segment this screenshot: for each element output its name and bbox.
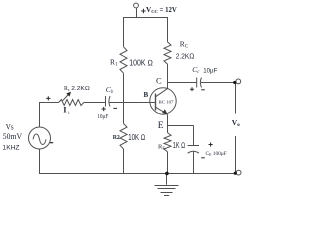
svg-text:2.2KΩ: 2.2KΩ — [71, 86, 90, 92]
svg-text:E: E — [158, 121, 164, 131]
svg-text:10μF: 10μF — [203, 67, 217, 74]
svg-text:1K Ω: 1K Ω — [173, 141, 185, 150]
svg-text:VCC = 12V: VCC = 12V — [146, 6, 177, 14]
svg-text:C: C — [156, 75, 162, 85]
svg-text:10K Ω: 10K Ω — [128, 133, 145, 142]
svg-text:CE 100μF: CE 100μF — [206, 151, 227, 157]
svg-text:1KHZ: 1KHZ — [3, 145, 20, 151]
svg-text:100K Ω: 100K Ω — [129, 58, 153, 67]
svg-text:Rs: Rs — [64, 86, 70, 92]
svg-text:B: B — [144, 91, 149, 99]
svg-text:10μF: 10μF — [97, 114, 109, 120]
svg-text:2.2KΩ: 2.2KΩ — [176, 51, 195, 60]
svg-text:BC 107: BC 107 — [159, 99, 175, 104]
svg-text:RE: RE — [158, 143, 165, 150]
svg-text:R2: R2 — [113, 135, 120, 141]
svg-text:50mV: 50mV — [3, 131, 23, 141]
